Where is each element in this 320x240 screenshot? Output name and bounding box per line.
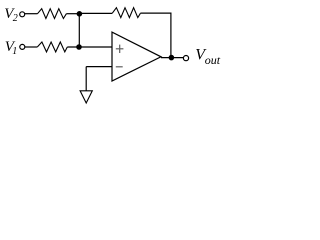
wire R1 to node A	[66, 13, 79, 15]
resistor R2	[37, 42, 67, 52]
wire V1 terminal to R2	[25, 46, 37, 48]
input terminal V1	[20, 44, 25, 49]
resistor R3 (feedback)	[112, 8, 140, 18]
ground	[80, 91, 92, 103]
node A (junction of V2 branch and feedback)	[77, 11, 82, 16]
svg-text:1: 1	[12, 46, 17, 57]
output terminal Vout	[183, 56, 188, 61]
label V1	[5, 39, 17, 57]
wire vertical link node A to node B	[78, 14, 80, 47]
svg-text:2: 2	[13, 13, 18, 24]
wire op-amp output	[161, 57, 183, 59]
svg-text:out: out	[205, 53, 221, 67]
label V2	[4, 6, 18, 24]
wire inverting input	[86, 66, 112, 68]
input terminal V2	[20, 12, 25, 17]
node C (output junction)	[169, 55, 174, 60]
resistor R1	[38, 9, 67, 19]
node B (junction on V1 branch)	[77, 45, 82, 50]
wire node A to R3	[79, 12, 112, 14]
wire R3 to output node (top-right corner)	[140, 13, 171, 58]
wire V2 terminal to R1	[25, 13, 38, 15]
op-amp U1	[112, 32, 161, 81]
wire ground branch	[85, 67, 87, 91]
label Vout	[195, 47, 221, 68]
wire R2 to op-amp noninverting input	[67, 46, 112, 48]
